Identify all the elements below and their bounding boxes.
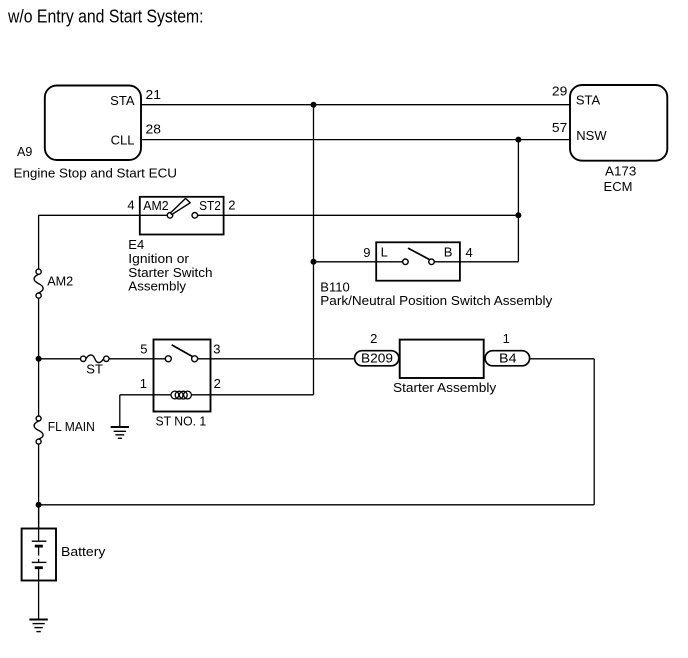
node junction E4 output and NSW vertical xyxy=(515,212,521,218)
svg-text:NSW: NSW xyxy=(576,128,607,143)
fuse ST right circle xyxy=(104,356,109,361)
svg-text:FL MAIN: FL MAIN xyxy=(48,419,95,434)
battery cell 2 plate long xyxy=(32,561,47,563)
wire battery top lead xyxy=(38,505,40,541)
svg-text:Park/Neutral Position Switch A: Park/Neutral Position Switch Assembly xyxy=(320,293,553,308)
relay coil xyxy=(171,391,191,399)
ignition switch E4 box xyxy=(140,197,224,235)
svg-text:Engine Stop and Start ECU: Engine Stop and Start ECU xyxy=(14,166,178,181)
svg-text:STA: STA xyxy=(110,93,135,108)
fuse AM2 element xyxy=(34,274,43,293)
fuse ST left circle xyxy=(81,356,86,361)
node junction left bus and bottom wire xyxy=(36,502,42,508)
wire left bus lower segment xyxy=(38,444,40,528)
wire B4 to right vertical xyxy=(530,358,595,360)
svg-text:B209: B209 xyxy=(361,351,393,366)
battery cell 1 plate short xyxy=(35,545,43,548)
wire ST fuse to relay xyxy=(109,358,165,360)
svg-text:Ignition or: Ignition or xyxy=(128,251,189,266)
svg-text:B4: B4 xyxy=(499,351,517,366)
wire right of B110 (to NSW vertical) xyxy=(434,261,518,263)
wire relay pin 1 to ground xyxy=(120,394,172,396)
svg-text:CLL: CLL xyxy=(111,132,135,147)
ground (battery) xyxy=(29,620,47,632)
starter assembly box xyxy=(400,340,484,378)
svg-text:2: 2 xyxy=(370,331,377,346)
wire CLL to NSW (ECU pin 28 to ECM pin 57) xyxy=(141,139,570,141)
fuse FL MAIN element xyxy=(34,421,43,439)
wire bottom return xyxy=(39,504,595,506)
svg-text:2: 2 xyxy=(228,198,235,213)
wire right vertical down xyxy=(593,359,595,505)
E4 switch contact right xyxy=(192,213,198,219)
svg-text:4: 4 xyxy=(127,198,134,213)
node junction on NSW wire xyxy=(515,137,521,143)
B110 switch contact left xyxy=(403,259,409,265)
relay switch lever xyxy=(172,345,193,357)
node junction vertical A and B110 wire xyxy=(311,259,317,265)
svg-text:1: 1 xyxy=(140,376,147,391)
wire right of E4 (ST2 output to vertical) xyxy=(198,214,519,216)
battery box xyxy=(22,529,56,581)
starter connector B4 oval xyxy=(485,351,529,366)
battery cell 1 plate long xyxy=(32,540,47,542)
relay contact right xyxy=(192,356,198,362)
fuse FL MAIN bottom circle xyxy=(36,439,41,444)
fuse ST element xyxy=(86,355,104,363)
wire vertical from NSW junction down to B110 xyxy=(517,140,519,262)
svg-text:ST2: ST2 xyxy=(199,198,221,213)
svg-text:ST NO. 1: ST NO. 1 xyxy=(156,414,207,429)
svg-text:4: 4 xyxy=(466,245,473,260)
svg-text:21: 21 xyxy=(146,87,161,102)
svg-text:A173: A173 xyxy=(605,163,636,178)
fuse FL MAIN top circle xyxy=(36,416,41,421)
ECM A173 box xyxy=(570,85,667,161)
svg-text:1: 1 xyxy=(503,331,510,346)
svg-text:Starter Assembly: Starter Assembly xyxy=(393,380,497,395)
wire battery mid lead xyxy=(38,546,40,555)
wire battery bottom lead xyxy=(38,568,40,620)
svg-text:57: 57 xyxy=(552,120,567,135)
wire left bus mid segment xyxy=(38,298,40,416)
park/neutral switch B110 box xyxy=(376,242,460,280)
fuse AM2 top circle xyxy=(36,269,41,274)
wire STA (ECU pin 21 to ECM pin 29) xyxy=(141,104,570,106)
node junction on STA wire xyxy=(311,102,317,108)
E4 switch key lever xyxy=(170,198,190,214)
E4 switch contact left xyxy=(167,213,173,219)
svg-text:B: B xyxy=(444,245,453,260)
wire left of E4 (from left bus to switch) xyxy=(39,214,168,216)
ECU A9 box xyxy=(45,86,141,161)
wire ST row from bus to fuse xyxy=(39,358,81,360)
relay ST NO. 1 box xyxy=(154,340,211,412)
wire left of B110 (from vertical A) xyxy=(314,261,403,263)
B110 switch lever xyxy=(408,248,429,259)
svg-text:E4: E4 xyxy=(128,237,144,252)
ground (relay pin 1) xyxy=(111,427,129,438)
svg-text:AM2: AM2 xyxy=(143,198,168,213)
wire ground stub xyxy=(119,395,121,427)
svg-text:29: 29 xyxy=(552,84,567,99)
node junction left bus and ST wire xyxy=(36,356,42,362)
svg-text:3: 3 xyxy=(213,342,220,357)
svg-text:L: L xyxy=(381,245,388,260)
starter connector B209 oval xyxy=(355,351,399,366)
B110 switch contact right xyxy=(429,259,435,265)
svg-text:5: 5 xyxy=(140,342,147,357)
svg-text:Assembly: Assembly xyxy=(128,278,186,293)
svg-text:ECM: ECM xyxy=(604,179,633,194)
svg-text:STA: STA xyxy=(576,93,601,108)
svg-text:9: 9 xyxy=(363,245,370,260)
wire relay pin 2 to vertical A xyxy=(191,394,313,396)
svg-text:A9: A9 xyxy=(17,144,32,159)
svg-text:Battery: Battery xyxy=(61,544,106,559)
svg-text:28: 28 xyxy=(146,122,161,137)
fuse AM2 bottom circle xyxy=(36,293,41,298)
relay contact left xyxy=(165,356,171,362)
wire vertical from STA junction down to relay coil xyxy=(313,105,315,395)
svg-text:AM2: AM2 xyxy=(47,274,73,289)
wire relay pin 3 to starter B209 xyxy=(198,358,355,360)
battery cell 2 plate short xyxy=(35,566,43,569)
wire left bus upper segment xyxy=(38,215,40,269)
svg-text:ST: ST xyxy=(86,362,103,377)
svg-text:2: 2 xyxy=(214,376,221,391)
svg-text:w/o Entry and Start System:: w/o Entry and Start System: xyxy=(7,6,203,26)
